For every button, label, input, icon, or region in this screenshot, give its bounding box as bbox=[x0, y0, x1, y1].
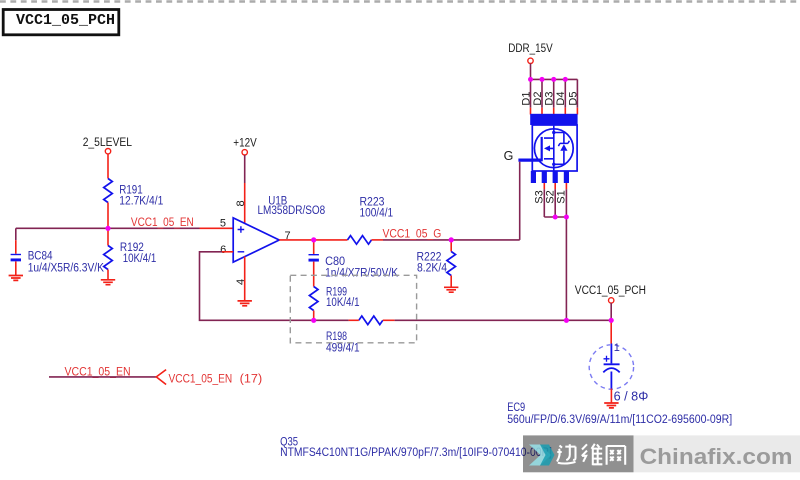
wire DDR_15V down bbox=[530, 64, 532, 80]
svg-text:R191: R191 bbox=[119, 184, 142, 196]
port VCC1_05_PCH bbox=[575, 285, 646, 303]
svg-text:4: 4 bbox=[235, 279, 247, 285]
svg-text:(17): (17) bbox=[240, 373, 263, 385]
off-page net label VCC1_05_EN (17) bbox=[169, 373, 263, 385]
node VCC1_05_PCH junction bbox=[609, 318, 614, 323]
node output junction bbox=[311, 237, 316, 242]
watermark CJK wei bbox=[582, 444, 603, 465]
svg-text:R192: R192 bbox=[120, 242, 144, 254]
wire junction to R192 bbox=[107, 228, 109, 245]
capacitor C80 bbox=[309, 255, 399, 280]
svg-text:D5: D5 bbox=[567, 92, 579, 106]
wire drain drops bbox=[531, 79, 578, 107]
svg-text:12.7K/4/1: 12.7K/4/1 bbox=[119, 196, 163, 208]
svg-text:1: 1 bbox=[614, 342, 620, 354]
wire C80 top lead bbox=[313, 240, 315, 254]
watermark banner left bbox=[523, 435, 634, 472]
resistor R223 bbox=[348, 197, 394, 245]
wire BC84 top lead bbox=[15, 240, 17, 254]
svg-text:VCC1_05_G: VCC1_05_G bbox=[383, 228, 442, 240]
off-page connector VCC1_05_EN bbox=[156, 370, 166, 385]
svg-text:VCC1_05_EN: VCC1_05_EN bbox=[131, 217, 194, 229]
svg-text:Chinafix.com: Chinafix.com bbox=[640, 444, 793, 469]
wire R223 right lead bbox=[372, 239, 384, 241]
wire R222 top lead bbox=[450, 240, 452, 252]
wire source bus bbox=[544, 216, 566, 218]
svg-text:G: G bbox=[504, 149, 514, 163]
transistor Q35 mosfet symbol bbox=[518, 126, 569, 171]
resistor R192 bbox=[104, 242, 157, 270]
wire BC84 to ground bbox=[15, 261, 17, 275]
wire VCC1_05_EN stub bbox=[49, 376, 156, 378]
ground under EC9 bbox=[604, 403, 618, 408]
svg-text:VCC1_05_EN: VCC1_05_EN bbox=[169, 373, 233, 385]
svg-text:560u/FP/D/6.3V/69/A/11m/[11CO2: 560u/FP/D/6.3V/69/A/11m/[11CO2-695600-09… bbox=[507, 414, 732, 426]
svg-text:+12V: +12V bbox=[233, 137, 257, 149]
resistor R199 bbox=[309, 286, 359, 310]
wire R198 right lead bbox=[383, 319, 395, 321]
wire source down to net bbox=[565, 217, 567, 320]
node drain bus junctions bbox=[528, 77, 568, 82]
svg-text:6: 6 bbox=[220, 244, 226, 256]
node R199 junction bbox=[311, 318, 316, 323]
ground under op-amp pin 4 bbox=[238, 301, 252, 306]
op-amp U1B bbox=[233, 196, 325, 263]
transistor Q35 package bbox=[530, 114, 577, 171]
node source bus junctions bbox=[553, 215, 569, 220]
node source net junction bbox=[564, 318, 569, 323]
resistor R198 bbox=[326, 316, 383, 354]
title box VCC1_05_PCH bbox=[3, 10, 119, 35]
capacitor EC9 bbox=[589, 342, 648, 403]
wire EC9 top lead bbox=[610, 320, 612, 343]
wire pin 4 lead bbox=[244, 256, 246, 301]
resistor R222 bbox=[417, 252, 456, 276]
svg-text:8.2K/4: 8.2K/4 bbox=[417, 263, 448, 275]
node VCC1_05_EN junction bbox=[105, 226, 110, 231]
ground under BC84 bbox=[9, 276, 23, 281]
svg-text:10K/4/1: 10K/4/1 bbox=[123, 253, 157, 265]
transistor Q35 source stubs bbox=[531, 171, 569, 183]
svg-text:C80: C80 bbox=[325, 256, 345, 268]
port 2_5LEVEL bbox=[83, 137, 133, 154]
wire pin 5 lead bbox=[200, 227, 234, 229]
svg-text:D1: D1 bbox=[520, 92, 532, 106]
wire 2_5LEVEL to R191 bbox=[107, 154, 109, 179]
wire net VCC1_05_EN horizontal bbox=[16, 227, 200, 229]
capacitor BC84 bbox=[11, 251, 105, 275]
port DDR_15V bbox=[508, 43, 553, 64]
svg-text:VCC1_05_PCH: VCC1_05_PCH bbox=[575, 285, 646, 297]
svg-text:10K/4/1: 10K/4/1 bbox=[326, 297, 360, 309]
svg-text:100/4/1: 100/4/1 bbox=[360, 208, 394, 220]
top dashed page border bbox=[0, 0, 800, 2]
svg-text:5: 5 bbox=[220, 218, 226, 230]
dashed selection box around R199 R198 bbox=[290, 275, 416, 343]
svg-text:D4: D4 bbox=[555, 92, 567, 106]
svg-text:D2: D2 bbox=[532, 92, 544, 106]
svg-text:1u/4/X5R/6.3V/K: 1u/4/X5R/6.3V/K bbox=[28, 262, 105, 274]
ground under R222 bbox=[444, 287, 458, 292]
wire +12V down bbox=[244, 155, 246, 183]
svg-text:499/4/1: 499/4/1 bbox=[326, 342, 360, 354]
svg-text:BC84: BC84 bbox=[28, 251, 53, 263]
watermark banner right bbox=[634, 435, 800, 472]
svg-text:D3: D3 bbox=[544, 92, 556, 106]
svg-text:2_5LEVEL: 2_5LEVEL bbox=[83, 137, 133, 149]
svg-text:NTMFS4C10NT1G/PPAK/970pF/7.3m/: NTMFS4C10NT1G/PPAK/970pF/7.3m/[10IF9-070… bbox=[280, 447, 552, 459]
svg-text:LM358DR/SO8: LM358DR/SO8 bbox=[258, 205, 326, 217]
wire C80 to R199 bbox=[313, 262, 315, 287]
watermark logo chevrons bbox=[529, 445, 555, 466]
port +12V bbox=[233, 137, 257, 155]
svg-text:1n/4/X7R/50V/K: 1n/4/X7R/50V/K bbox=[325, 268, 398, 280]
watermark CJK xun bbox=[557, 444, 576, 463]
wire R191 to junction bbox=[107, 203, 109, 229]
wire gate net bbox=[519, 162, 521, 240]
wire drain bus bbox=[531, 78, 578, 80]
wire source drops bbox=[544, 189, 566, 217]
ground under R192 bbox=[101, 280, 115, 285]
wire BC84 branch bbox=[15, 228, 17, 240]
resistor R191 bbox=[104, 179, 164, 208]
node R222 junction bbox=[449, 237, 454, 242]
watermark CJK wang bbox=[607, 446, 626, 465]
wire R192 to ground bbox=[107, 270, 109, 280]
wire pin 8 lead bbox=[244, 183, 246, 225]
wire drain pin leads bbox=[531, 108, 578, 115]
wire EC9 bottom lead bbox=[610, 389, 612, 403]
svg-text:DDR_15V: DDR_15V bbox=[508, 43, 553, 55]
svg-text:6 / 8Φ: 6 / 8Φ bbox=[614, 389, 649, 403]
wire R222 bottom lead bbox=[450, 276, 452, 288]
svg-text:EC9: EC9 bbox=[507, 402, 525, 414]
wire feedback loop bbox=[200, 252, 349, 320]
wire pin 6 lead bbox=[222, 251, 233, 253]
wire net VCC1_05_G bbox=[383, 239, 520, 241]
wire R198 left lead bbox=[349, 319, 359, 321]
svg-text:8: 8 bbox=[235, 200, 247, 206]
wire bottom net to VCC1_05_PCH bbox=[395, 319, 612, 321]
wire VCC1_05_PCH down bbox=[610, 303, 612, 320]
svg-text:VCC1_05_PCH: VCC1_05_PCH bbox=[16, 12, 115, 29]
wire R199 bottom lead bbox=[313, 311, 315, 321]
wire pin 7 output bbox=[279, 239, 347, 241]
wire source pin leads bbox=[544, 183, 566, 189]
